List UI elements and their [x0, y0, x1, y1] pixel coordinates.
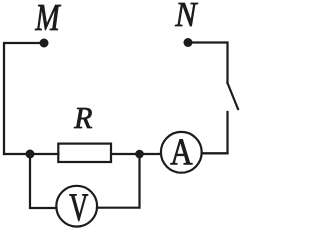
junction dot: [135, 150, 144, 159]
wire: [202, 152, 228, 154]
junction dot: [26, 150, 35, 159]
resistor R: [58, 144, 111, 162]
wire: [4, 153, 58, 155]
ammeter A: [161, 132, 202, 173]
wire: [111, 153, 161, 155]
wire: [188, 43, 228, 84]
node M label: [35, 5, 61, 30]
wire: [97, 154, 140, 208]
switch S: [228, 83, 239, 109]
wire: [202, 112, 228, 153]
voltmeter V: [56, 186, 97, 227]
terminal M: [40, 39, 49, 48]
wire: [30, 154, 57, 208]
node N label: [175, 3, 198, 26]
terminal N: [184, 38, 193, 47]
label R: [74, 108, 92, 128]
wire: [4, 43, 44, 154]
